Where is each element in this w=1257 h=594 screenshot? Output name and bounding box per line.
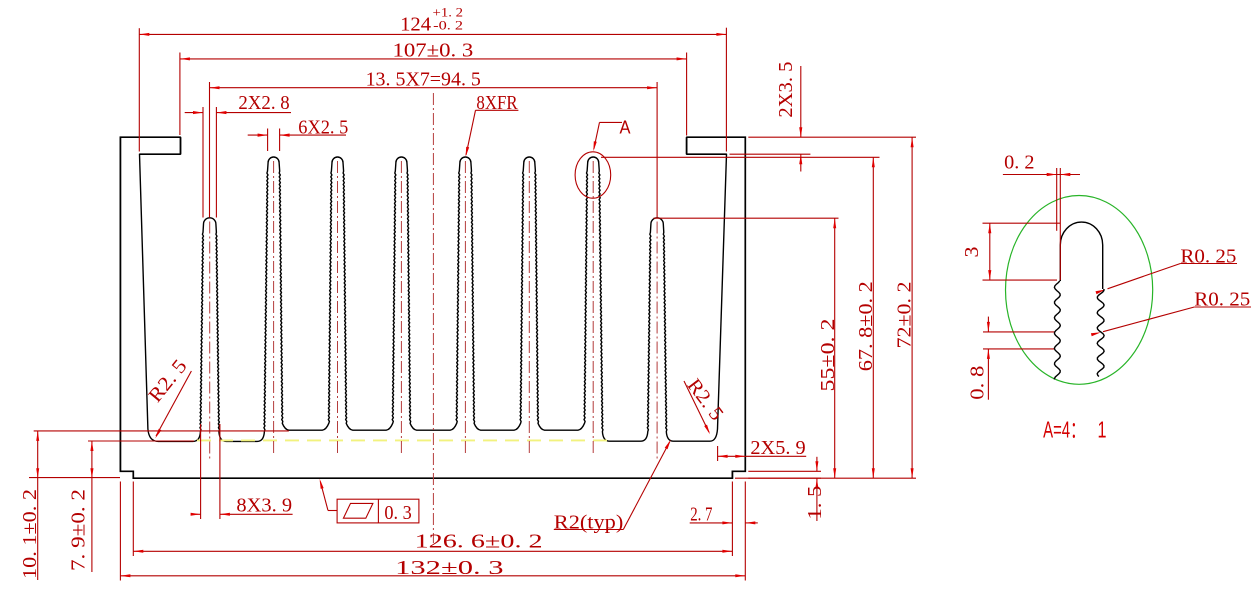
svg-text:2. 7: 2. 7 [690,503,712,525]
dimension 2X5.9 [717,446,719,461]
svg-text:3: 3 [961,247,983,258]
detail view green ellipse [1006,196,1153,385]
dimension 107±0.3 [179,53,181,136]
detail fin left serrated edge [1054,281,1060,380]
svg-text:R2. 5: R2. 5 [683,375,728,425]
dimension 10.1±0.2 [34,430,289,432]
svg-text:R2. 5: R2. 5 [144,355,191,406]
dimension 1.5 (step height) [748,470,821,472]
detail dimension 3 [983,222,1061,224]
svg-text:6X2. 5: 6X2. 5 [298,117,348,139]
heatsink outer boundary (bolder) [120,153,139,155]
svg-text:A=4：: A=4： [1043,417,1085,443]
dimension 67.8±0.2 [872,157,874,478]
svg-text:2X2. 8: 2X2. 8 [238,92,289,114]
svg-text:-0. 2: -0. 2 [433,18,463,33]
dimension 13.5X7=94.5 [209,82,211,218]
flatness feature control frame [337,499,419,523]
svg-text:A: A [620,118,631,138]
svg-text:55±0. 2: 55±0. 2 [817,319,839,392]
dimension 2.7 [731,482,733,557]
svg-text:2X5. 9: 2X5. 9 [750,437,805,459]
dimension 8X3.9 [200,424,202,519]
detail fin right serrated edge [1097,289,1104,377]
svg-text:10. 1±0. 2: 10. 1±0. 2 [19,489,41,579]
svg-text:7. 9±0. 2: 7. 9±0. 2 [67,489,89,571]
detail dimension 0.8 [983,331,1055,333]
dimension 55±0.2 [834,218,836,478]
dimension 132±0.3 [119,482,121,581]
right side extension lines [748,136,916,138]
svg-text:126. 6±0. 2: 126. 6±0. 2 [415,531,543,553]
detail dimension 0.2 [1003,174,1080,176]
svg-text:132±0. 3: 132±0. 3 [395,557,504,579]
yellow highlight line at 7.9 level [197,439,609,441]
svg-text:2X3. 5: 2X3. 5 [775,62,797,118]
svg-text:107±0. 3: 107±0. 3 [393,40,474,62]
main vertical centerline [432,93,434,543]
svg-text:1. 5: 1. 5 [804,486,826,520]
fin centerlines [209,222,211,459]
svg-text:8X3. 9: 8X3. 9 [236,495,292,517]
detail fin outline (cap) [1060,222,1102,289]
dimension 126.6±0.2 [132,482,134,557]
heatsink profile outline [120,137,745,478]
dimension 124 +1.2/-0.2 [138,28,140,151]
dimension 72±0.2 [911,137,913,478]
svg-text:0. 3: 0. 3 [384,502,411,524]
dimension 2X3.5 (flange thickness) [730,153,811,155]
dimension 7.9±0.2 [88,440,194,442]
svg-text:8XFR: 8XFR [476,92,518,114]
svg-text:67. 8±0. 2: 67. 8±0. 2 [855,281,877,371]
detail 0.2 extension lines [1056,168,1058,231]
detail callout circle A [575,152,611,198]
dimension 2X2.8 [202,107,204,218]
svg-text:1: 1 [1098,417,1107,443]
svg-text:0. 8: 0. 8 [966,366,988,400]
svg-text:72±0. 2: 72±0. 2 [894,282,916,349]
svg-text:13. 5X7=94. 5: 13. 5X7=94. 5 [366,68,481,90]
svg-text:124: 124 [400,13,431,35]
dimension 6X2.5 [267,129,269,152]
svg-text:0. 2: 0. 2 [1004,152,1034,174]
